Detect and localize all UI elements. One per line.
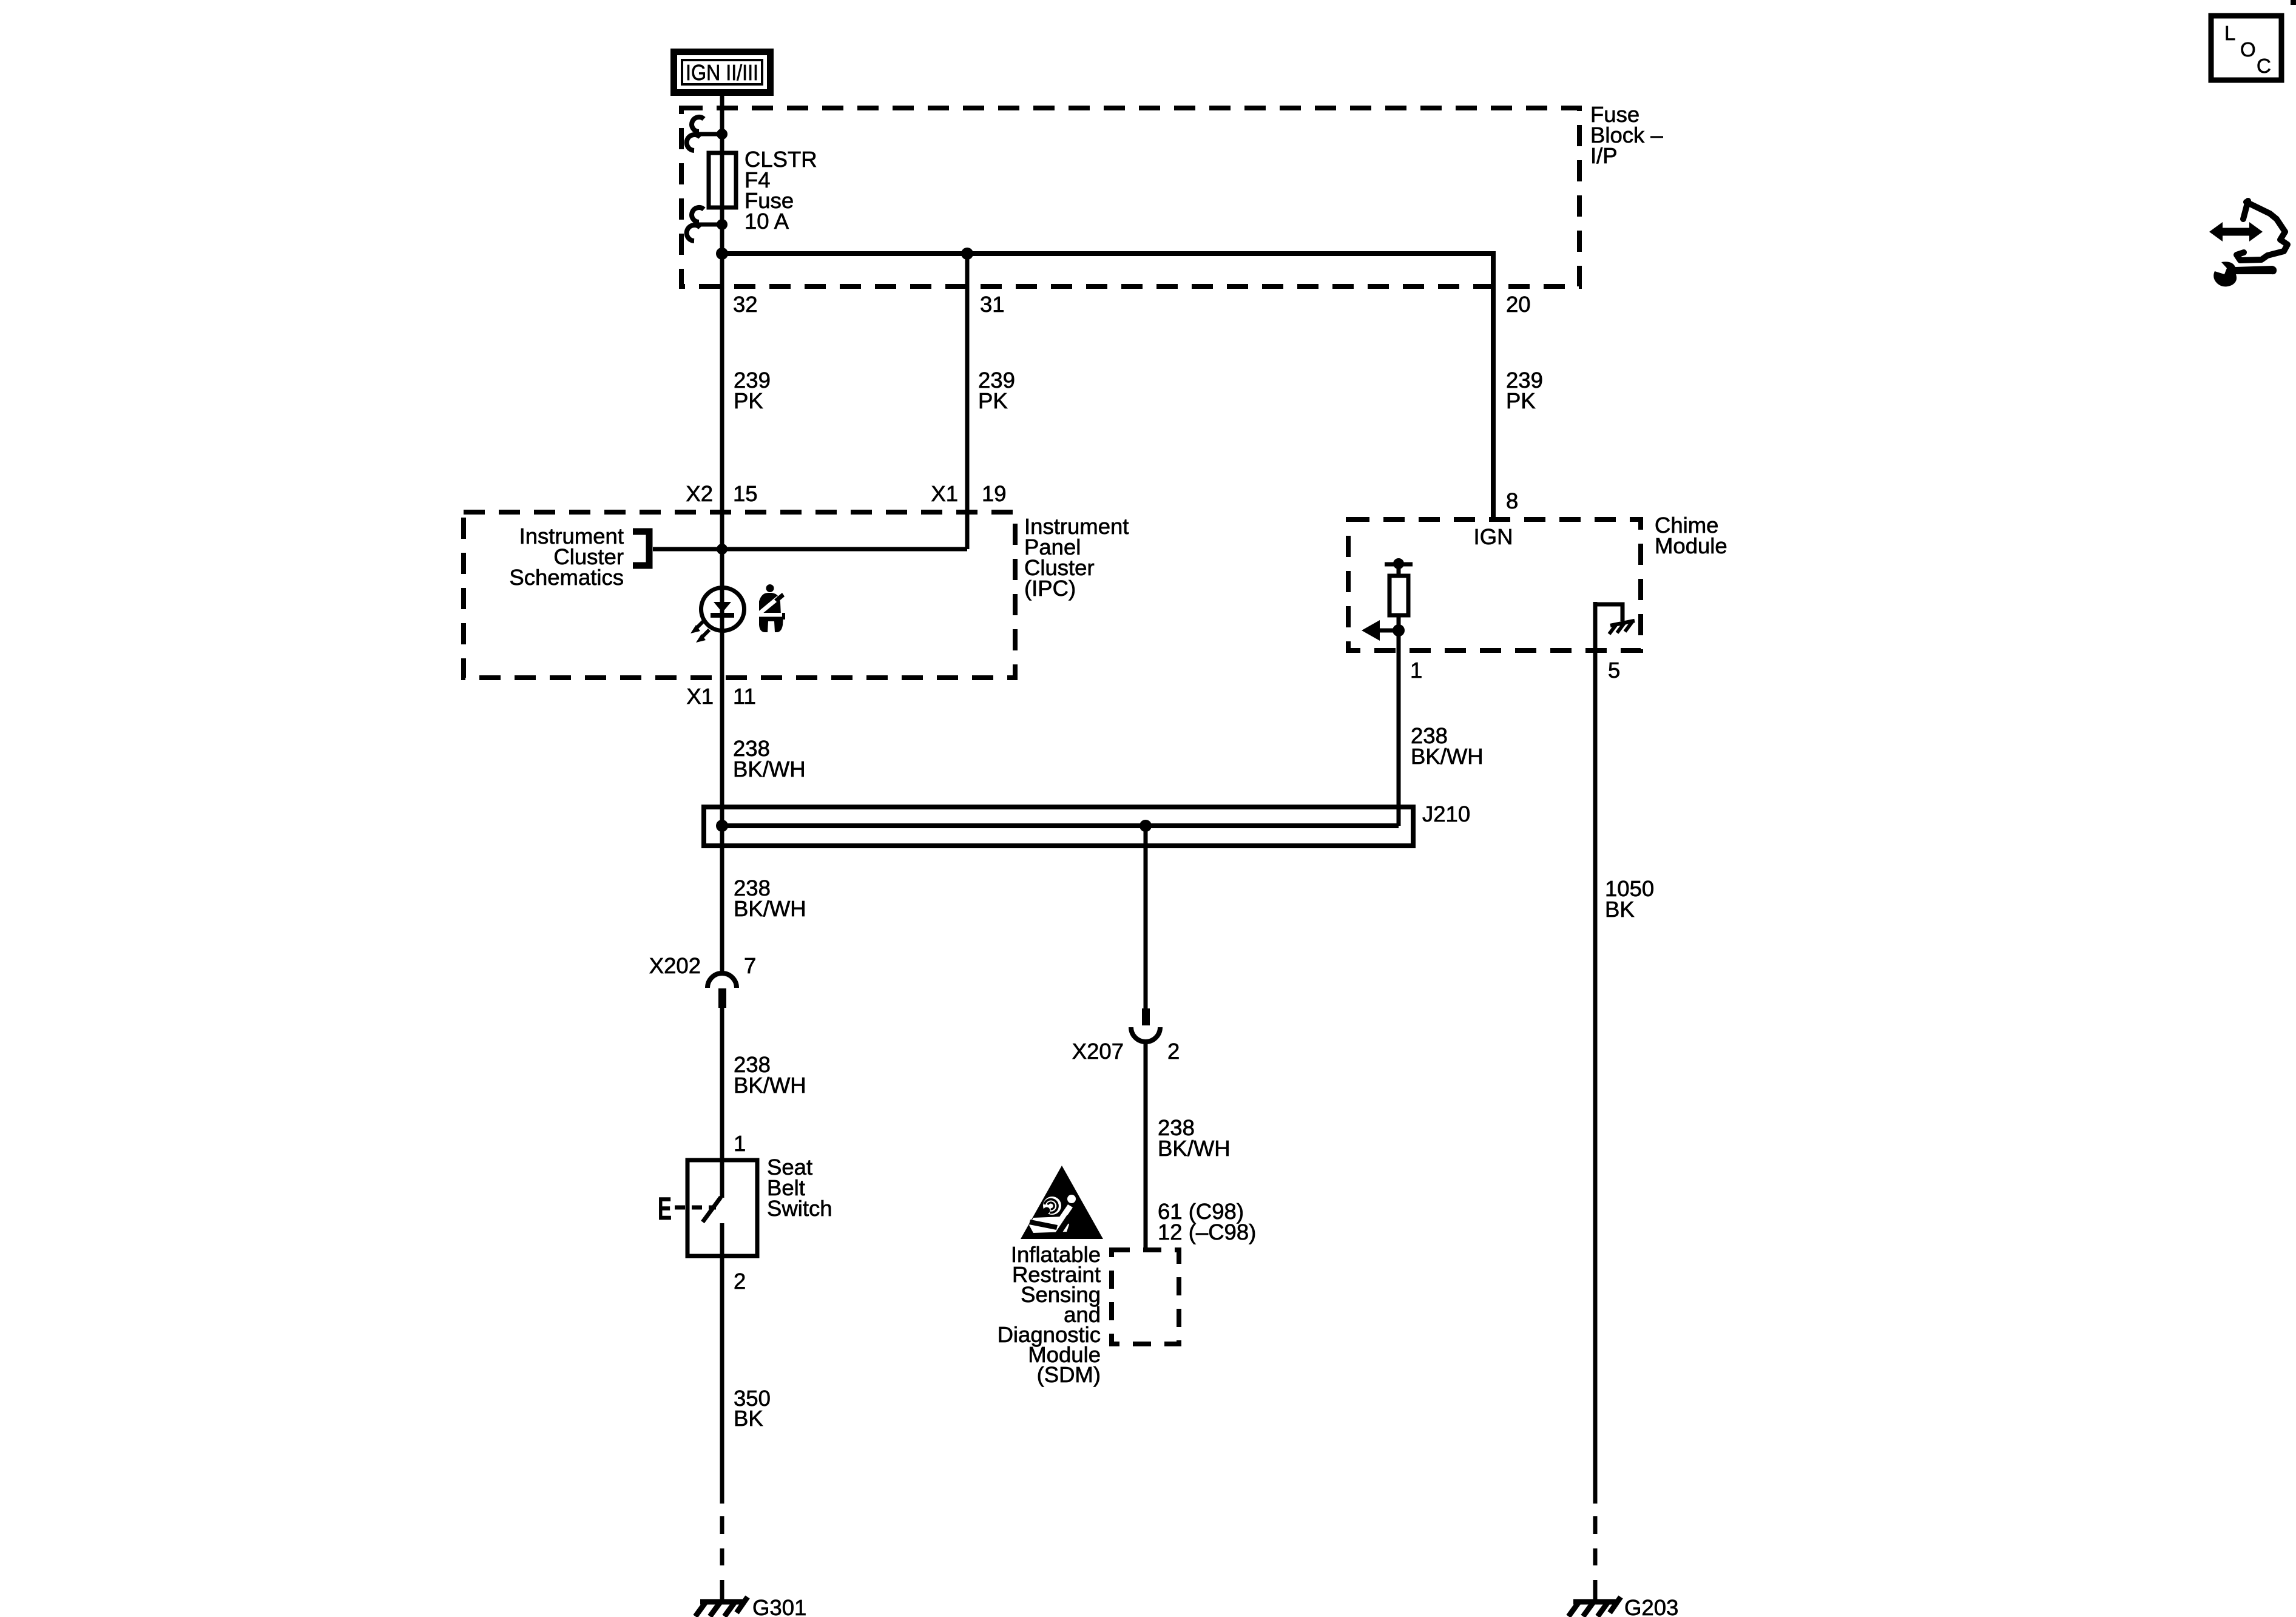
SDM dashed box [1112,1250,1179,1344]
chime internal ground link [1595,604,1635,634]
svg-text:15: 15 [733,481,758,506]
svg-text:32: 32 [733,292,758,317]
service icon: panel outline [2237,201,2288,260]
svg-text:C: C [2257,55,2271,77]
connector labels X1 11 [686,684,756,709]
svg-text:20: 20 [1506,292,1531,317]
wire to SDM [1144,1042,1148,1250]
svg-text:E: E [658,1191,672,1227]
wire 1050 BK (chime pin 5 to G203) [1593,602,1598,1504]
wire through LED to IPC pin 11 and J210 [720,549,724,807]
svg-text:BK: BK [734,1406,763,1431]
wire 238 BK/WH (IPC pin 11 to J210) [733,736,806,781]
wire 238 BK/WH (X202 to switch) [720,1008,724,1198]
junction node on IPC internal wire [717,544,728,555]
wire 239 PK middle (pin 31 to IPC pin 19) [965,254,970,549]
fuse clip lower [687,208,728,254]
svg-text:BK/WH: BK/WH [1158,1136,1231,1161]
service icon: double arrow [2209,222,2263,241]
label CLSTR F4 Fuse 10 A [745,147,817,234]
wire pin 8 into chime [1491,254,1496,519]
page corner tick [2291,0,2296,5]
wire bus inside fuse block to pin 20 [722,254,1493,519]
svg-text:11: 11 [733,684,756,709]
svg-text:IGN II/III: IGN II/III [686,60,758,85]
svg-text:J210: J210 [1422,802,1470,826]
chime module dashed box [1348,519,1641,650]
svg-text:PK: PK [734,388,763,413]
service icon: wrench [2213,262,2277,286]
chime internal output arrow [1362,620,1405,641]
svg-text:IGN: IGN [1474,524,1513,549]
svg-text:(SDM): (SDM) [1037,1362,1101,1387]
svg-text:X1: X1 [931,481,958,506]
E actuator dashed link [675,1206,716,1210]
svg-text:BK/WH: BK/WH [1411,744,1484,769]
svg-text:PK: PK [978,388,1008,413]
switch lower contact [720,1223,724,1275]
fuse block I/P dashed box [681,108,1579,286]
svg-text:31: 31 [980,292,1005,317]
label Fuse Block - I/P [1590,102,1663,168]
svg-text:1: 1 [734,1131,746,1156]
svg-text:8: 8 [1506,488,1518,513]
svg-text:10 A: 10 A [745,209,789,234]
LED indicator (seat belt lamp) [701,588,745,631]
svg-text:PK: PK [1506,388,1536,413]
wire 239 PK right (pin 20 to chime pin 8) [1506,368,1543,413]
svg-text:L: L [2224,22,2235,44]
label Seat Belt Switch [767,1155,832,1221]
svg-text:X2: X2 [686,481,713,506]
svg-text:12 (–C98): 12 (–C98) [1158,1220,1256,1244]
bracket to Instrument Cluster Schematics [633,532,649,565]
ground G301 [695,1597,748,1616]
label Instrument Cluster Schematics [509,524,624,590]
svg-text:BK: BK [1605,897,1635,922]
svg-text:BK/WH: BK/WH [733,757,806,781]
connector labels X2 15 [686,481,757,506]
svg-text:19: 19 [982,481,1007,506]
svg-text:X207: X207 [1072,1039,1124,1064]
svg-text:G203: G203 [1624,1595,1678,1617]
svg-text:5: 5 [1608,658,1620,683]
svg-text:BK/WH: BK/WH [734,896,806,921]
svg-text:7: 7 [744,953,756,978]
wire 238 BK/WH (J210 to X207) [1144,826,1148,1008]
connector labels X1 19 [931,481,1006,506]
svg-text:Module: Module [1655,533,1727,558]
airbag warning triangle [1021,1166,1103,1239]
power label box IGN II/III [674,52,771,93]
LOC reference box [2211,16,2281,80]
wire 239 PK left (pin 32 to IPC pin 15) [720,254,724,549]
svg-text:Switch: Switch [767,1196,832,1221]
wire from IGN II/III into fuse block [720,94,724,153]
svg-text:BK/WH: BK/WH [734,1073,806,1098]
seat belt switch box [687,1160,757,1256]
svg-text:Schematics: Schematics [509,565,624,590]
chime internal resistor [1385,558,1413,826]
ground G203 [1568,1597,1621,1616]
switch blade [703,1197,721,1222]
svg-text:X202: X202 [649,953,701,978]
splice pack J210 [704,807,1413,846]
svg-text:2: 2 [734,1269,746,1294]
connector X202 [707,973,737,1008]
connector X207 [1131,1008,1160,1042]
LED light arrows [690,621,709,643]
svg-text:O: O [2240,38,2256,61]
seat belt pictograph [756,584,785,632]
svg-text:1: 1 [1410,658,1422,683]
dashed lead to G301 [720,1516,724,1599]
label Inflatable Restraint Sensing and Diagnostic Module (SDM) [998,1242,1101,1387]
svg-text:2: 2 [1167,1039,1180,1064]
wire 238 BK/WH (chime pin 1 leg) [1411,723,1484,769]
fuse clip upper [687,117,728,150]
fuse CLSTR F4 10A [709,153,736,208]
SDM pin labels 61 (C98) / 12 (-C98) [1158,1199,1256,1244]
label Chime Module [1655,513,1727,558]
label Instrument Panel Cluster (IPC) [1024,514,1129,601]
junction node to pin 31 [961,248,973,260]
svg-text:X1: X1 [686,684,714,709]
junction node at fuse output [716,248,728,260]
wire 238 BK/WH (J210 to X202) [720,807,724,973]
dashed lead to G203 [1593,1516,1598,1599]
IPC dashed box [464,512,1015,678]
wire 350 BK (switch to G301) [720,1272,724,1504]
svg-text:I/P: I/P [1590,143,1618,168]
svg-text:G301: G301 [752,1595,806,1617]
svg-text:(IPC): (IPC) [1024,576,1076,601]
IPC internal wire to pin 19 leg [653,547,967,552]
